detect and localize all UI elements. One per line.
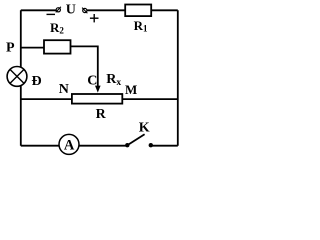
terminal positive <box>82 8 98 23</box>
switch K <box>125 134 153 147</box>
svg-text:Đ: Đ <box>32 74 42 89</box>
wire bottom after switch <box>151 145 178 147</box>
wire R2 to wiper corner <box>71 46 98 86</box>
resistor R1 <box>125 5 151 17</box>
wire top-right segment <box>87 9 125 11</box>
terminal negative <box>47 7 61 15</box>
svg-text:M: M <box>125 82 137 97</box>
wiper arrow C <box>95 86 101 93</box>
wire R1 to corner <box>152 9 178 11</box>
wire M <box>123 98 178 100</box>
wire top-left segment <box>21 9 57 11</box>
potentiometer R <box>72 94 122 104</box>
svg-text:P: P <box>6 41 15 56</box>
svg-text:N: N <box>59 82 69 97</box>
ammeter A <box>59 134 79 154</box>
svg-text:A: A <box>64 138 75 154</box>
svg-text:C: C <box>87 74 97 89</box>
wire right vertical <box>177 10 179 145</box>
svg-text:K: K <box>139 120 150 135</box>
resistor R2 <box>44 40 71 53</box>
wire bottom <box>21 145 127 147</box>
wire P branch <box>21 47 44 49</box>
wire N <box>21 98 72 100</box>
svg-text:R: R <box>96 107 107 122</box>
wire left vertical <box>20 10 22 145</box>
svg-text:U: U <box>66 3 76 18</box>
lamp D <box>7 67 27 87</box>
